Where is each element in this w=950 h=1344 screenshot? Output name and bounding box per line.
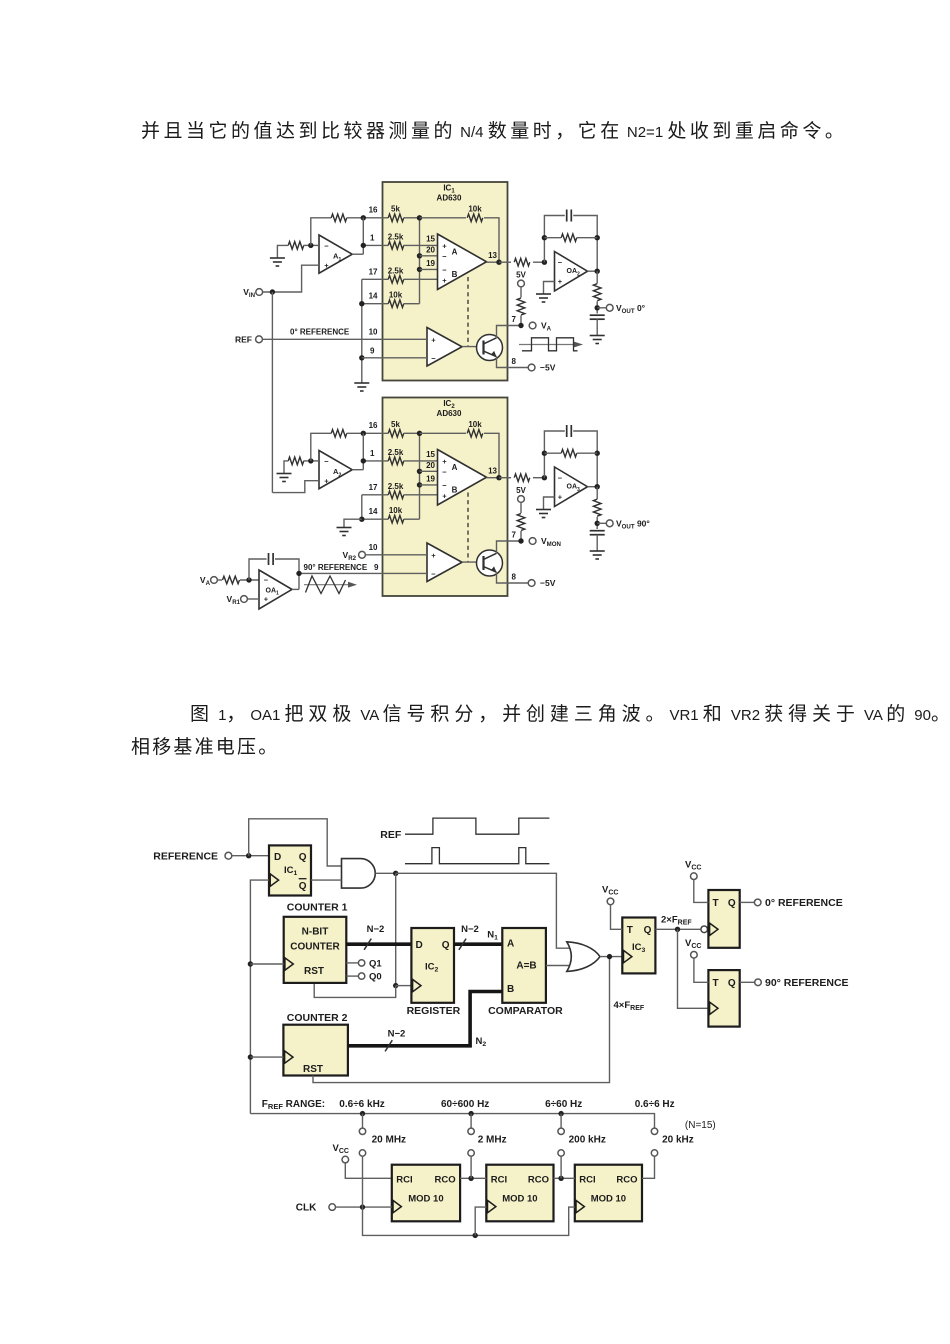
label A2 bbox=[333, 467, 341, 478]
svg-text:+: + bbox=[558, 277, 563, 286]
terminal CLK bbox=[329, 1204, 336, 1211]
wire collector to pin7 bbox=[497, 541, 522, 553]
svg-text:B: B bbox=[507, 984, 514, 995]
label AD630 bbox=[437, 409, 462, 418]
value 5k bbox=[391, 205, 400, 214]
svg-text:10k: 10k bbox=[389, 291, 403, 300]
svg-text:6÷60 Hz: 6÷60 Hz bbox=[545, 1099, 582, 1110]
wire 5k to node bbox=[404, 432, 420, 434]
wire amp out bbox=[487, 477, 500, 479]
junction CLK bbox=[360, 1204, 365, 1209]
capacitor output filter OA3 bbox=[590, 531, 605, 535]
svg-text:RCI: RCI bbox=[579, 1174, 595, 1185]
bus width slash bbox=[385, 1040, 392, 1051]
label COUNTER bbox=[290, 942, 340, 953]
wire Q0 bbox=[346, 975, 358, 977]
resistor 10k feedback IC1 bbox=[467, 214, 483, 222]
A1 minus bbox=[324, 241, 329, 250]
wire 10k to pin13 bbox=[484, 218, 499, 262]
clock input MOD10 3 bbox=[576, 1200, 584, 1212]
svg-text:+: + bbox=[442, 242, 447, 251]
label 200 kHz bbox=[569, 1135, 606, 1146]
square wave symbol VA bbox=[519, 338, 583, 351]
svg-text:COUNTER 1: COUNTER 1 bbox=[287, 902, 348, 914]
svg-text:2.5k: 2.5k bbox=[388, 482, 404, 491]
wire AND output to register clock bbox=[395, 873, 397, 985]
terminal 90deg REFERENCE bbox=[755, 979, 762, 986]
wire VIN to A2 plus bbox=[272, 481, 319, 493]
junction node16 bbox=[417, 431, 422, 436]
wire VA to resistor bbox=[217, 579, 222, 581]
svg-text:REGISTER: REGISTER bbox=[407, 1005, 461, 1017]
junction pin20 bbox=[417, 469, 422, 474]
wire REFERENCE to D bbox=[232, 855, 269, 857]
AND pulse waveform bbox=[405, 848, 549, 864]
label A bbox=[452, 248, 458, 257]
label OA2 bbox=[567, 268, 581, 277]
OA1 minus bbox=[264, 576, 269, 585]
junction OA2 inverting bbox=[542, 260, 547, 265]
wire 2MHz tap bbox=[470, 1156, 472, 1178]
svg-text:15: 15 bbox=[426, 235, 435, 244]
terminal 5V bbox=[518, 280, 525, 287]
clock input register bbox=[413, 979, 421, 991]
clock input counter2 bbox=[285, 1051, 293, 1063]
wire resistor to OA1 bbox=[240, 579, 259, 581]
svg-text:+: + bbox=[442, 492, 447, 501]
label N1 bbox=[487, 930, 498, 942]
label RCI 2 bbox=[491, 1174, 507, 1185]
wire pin14 row IC1 bbox=[362, 303, 389, 305]
svg-text:5V: 5V bbox=[516, 271, 526, 280]
svg-text:+: + bbox=[264, 595, 269, 604]
junction OA2 output bbox=[595, 269, 600, 274]
junction pin13 bbox=[496, 475, 501, 480]
svg-text:CLK: CLK bbox=[296, 1203, 317, 1214]
wire 2xFref to 90deg FF clock bbox=[678, 929, 709, 1008]
wire pin14 row IC2 bbox=[362, 518, 389, 520]
junction pin20 bbox=[417, 253, 422, 258]
label REGISTER bbox=[407, 1005, 461, 1017]
label 2 MHz bbox=[478, 1135, 507, 1146]
svg-text:Q: Q bbox=[442, 940, 450, 951]
label VCC dividers bbox=[333, 1143, 349, 1155]
counter 1 N-BIT COUNTER bbox=[284, 917, 347, 983]
clock input 0deg FF bbox=[710, 923, 718, 935]
label IC1 bbox=[443, 184, 455, 195]
pin 8 IC2 bbox=[512, 573, 517, 582]
wire OA2 cap feedback left bbox=[544, 216, 564, 263]
label 5V bbox=[516, 486, 526, 495]
resistor 10k IC1 bbox=[388, 300, 404, 308]
wire pin20 to -A bbox=[420, 470, 438, 472]
svg-text:2.5k: 2.5k bbox=[388, 233, 404, 242]
resistor 2.5k-A IC2 bbox=[388, 457, 404, 465]
register IC2 bbox=[411, 928, 454, 1003]
wire 2.5k to +A bbox=[404, 244, 438, 246]
label IC1 ff bbox=[284, 865, 298, 877]
svg-text:−: − bbox=[324, 241, 329, 250]
OA2 minus bbox=[558, 258, 563, 267]
wire CLK to MOD10 3 bbox=[363, 1207, 575, 1235]
svg-text:−: − bbox=[442, 481, 447, 490]
label IC2 bbox=[443, 399, 455, 410]
op-amp A1 bbox=[319, 235, 352, 273]
label 90 deg reference bbox=[304, 563, 368, 572]
wire AND output bbox=[375, 872, 395, 874]
junction A2 inverting node bbox=[308, 458, 313, 463]
flip-flop 90 deg bbox=[708, 970, 739, 1027]
pin 19 bbox=[426, 475, 435, 484]
wire to ground A2 bbox=[284, 461, 288, 474]
junction pin1 node IC2 bbox=[361, 458, 366, 463]
ground VOUT 0 filter bbox=[590, 336, 605, 344]
wire pin13 out bbox=[499, 261, 511, 263]
resistor 2.5k-A IC1 bbox=[388, 242, 404, 250]
flip-flop IC1 bbox=[269, 845, 311, 895]
resistor 2.5k-B IC1 bbox=[388, 276, 404, 284]
svg-text:20 MHz: 20 MHz bbox=[372, 1135, 406, 1146]
svg-text:COMPARATOR: COMPARATOR bbox=[488, 1005, 563, 1017]
wire 10k to pin13 bbox=[484, 433, 499, 477]
svg-text:5k: 5k bbox=[391, 420, 400, 429]
transistor Q2 bbox=[477, 550, 503, 576]
ground OA2 bbox=[536, 294, 551, 302]
terminal VCC dividers bbox=[342, 1156, 349, 1163]
switch contact lower 2MHz bbox=[468, 1150, 474, 1156]
svg-text:RCI: RCI bbox=[491, 1174, 507, 1185]
wire RCO1 to RCI2 bbox=[460, 1177, 486, 1179]
wire IC3 Q out 2xFref bbox=[655, 928, 700, 930]
wire 200kHz tap bbox=[560, 1156, 562, 1178]
pin 1 bbox=[370, 234, 375, 243]
label N-BIT bbox=[302, 926, 329, 937]
value 2.5k bbox=[388, 448, 404, 457]
svg-text:N-BIT: N-BIT bbox=[302, 926, 329, 937]
junction OA3 output bbox=[595, 484, 600, 489]
wire VCC to RCI1 bbox=[345, 1163, 392, 1178]
terminal VR2 bbox=[359, 551, 366, 558]
wire VR1 to OA1 plus bbox=[247, 598, 259, 600]
wire 2.5k to +B bbox=[404, 494, 438, 496]
svg-text:A: A bbox=[507, 938, 514, 949]
wire CLK to MOD10 1 bbox=[336, 1206, 392, 1208]
svg-text:−: − bbox=[431, 354, 436, 363]
svg-text:B: B bbox=[452, 486, 458, 495]
svg-text:14: 14 bbox=[369, 292, 378, 301]
resistor output filter OA3 bbox=[593, 499, 601, 516]
svg-text:7: 7 bbox=[512, 531, 517, 540]
label A=B bbox=[516, 961, 536, 972]
wire node to 10k bbox=[420, 217, 467, 219]
label T IC3 bbox=[627, 925, 633, 936]
junction CLK MOD10 2 bbox=[473, 1233, 478, 1238]
svg-text:Q1: Q1 bbox=[369, 958, 382, 969]
label AD630 bbox=[437, 194, 462, 203]
label A bbox=[452, 463, 458, 472]
svg-text:60÷600 Hz: 60÷600 Hz bbox=[441, 1099, 489, 1110]
ground OA3 bbox=[536, 510, 551, 518]
junction A1 inverting node bbox=[308, 243, 313, 248]
OA3 plus bbox=[558, 493, 563, 502]
switch contact upper 2MHz bbox=[468, 1128, 474, 1134]
label Q register bbox=[442, 940, 450, 951]
wire pin17 row IC1 bbox=[362, 278, 389, 280]
junction OA1 inverting bbox=[246, 577, 251, 582]
wire 5V to resistor bbox=[520, 503, 522, 514]
flip-flop 0 deg bbox=[708, 890, 739, 948]
terminal -5V stage1 bbox=[528, 364, 535, 371]
svg-text:16: 16 bbox=[369, 206, 378, 215]
wire A1 output column bbox=[362, 218, 364, 254]
svg-text:1: 1 bbox=[370, 234, 375, 243]
resistor A1 feedback bbox=[331, 214, 347, 222]
junction pin13 bbox=[496, 260, 501, 265]
value 10k fb bbox=[468, 420, 482, 429]
svg-text:T: T bbox=[627, 925, 633, 936]
wire clock to counter1 bbox=[250, 963, 283, 965]
label IC2 register bbox=[425, 962, 439, 974]
junction VIN bbox=[270, 289, 275, 294]
label MOD 10 1 bbox=[408, 1194, 443, 1205]
wire fb resistor lead bbox=[544, 237, 561, 239]
label D IC1ff bbox=[274, 852, 281, 863]
wire to A2 inverting bbox=[304, 460, 319, 462]
bus N-2 counter1 to register bbox=[346, 942, 411, 946]
label IC3 bbox=[632, 942, 646, 954]
terminal Q1 bbox=[358, 960, 364, 966]
svg-text:0.6÷6 kHz: 0.6÷6 kHz bbox=[339, 1099, 385, 1110]
label VA bbox=[541, 321, 552, 333]
label N-2 register bbox=[461, 924, 479, 935]
wire OA2 plus to ground bbox=[544, 282, 555, 295]
wire node column bbox=[419, 433, 421, 519]
pin 14 bbox=[369, 507, 378, 516]
A2 plus bbox=[324, 476, 329, 485]
clock input 90deg FF bbox=[710, 1002, 718, 1014]
svg-text:−5V: −5V bbox=[540, 363, 556, 373]
label VMON bbox=[541, 536, 561, 548]
svg-text:MOD 10: MOD 10 bbox=[591, 1194, 626, 1205]
wire pin20 to -A bbox=[420, 255, 438, 257]
resistor 5k IC1 bbox=[388, 214, 404, 222]
divider MOD 10 #3 bbox=[575, 1165, 642, 1222]
divider MOD 10 #1 bbox=[392, 1165, 460, 1222]
label 20 kHz bbox=[662, 1135, 694, 1146]
wire 20MHz tap to CLK bbox=[362, 1156, 364, 1207]
label 0 deg reference bbox=[290, 327, 350, 336]
wire emitter to pin8 bbox=[497, 572, 529, 583]
svg-text:13: 13 bbox=[488, 251, 497, 260]
wire OA1 output bbox=[292, 588, 299, 590]
svg-text:RCO: RCO bbox=[528, 1174, 549, 1185]
wire Q1 bbox=[346, 962, 358, 964]
svg-text:RCO: RCO bbox=[616, 1174, 637, 1185]
svg-text:−: − bbox=[442, 468, 447, 477]
wire Qbar to AND input bbox=[311, 879, 342, 881]
minus B bbox=[442, 481, 447, 490]
resistor OA1 input bbox=[223, 576, 240, 584]
svg-text:2.5k: 2.5k bbox=[388, 448, 404, 457]
terminal VCC 0deg FF bbox=[691, 873, 698, 880]
label B comparator bbox=[507, 984, 514, 995]
label VCC IC3 bbox=[602, 884, 618, 896]
junction pin1 node bbox=[361, 243, 366, 248]
wire REF to pin10 bbox=[262, 338, 427, 340]
IC2 AD630 box bbox=[383, 398, 508, 597]
svg-text:+: + bbox=[324, 261, 329, 270]
ground VOUT 90 filter bbox=[590, 551, 605, 559]
wire 10k to node bbox=[404, 518, 420, 520]
clock input MOD10 2 bbox=[488, 1200, 496, 1212]
svg-text:RST: RST bbox=[304, 966, 324, 977]
terminal VCC 90deg FF bbox=[691, 952, 698, 959]
wire pin13 out bbox=[499, 477, 511, 479]
value 10k bbox=[389, 291, 403, 300]
label T 0deg FF bbox=[713, 898, 719, 909]
svg-text:2.5k: 2.5k bbox=[388, 267, 404, 276]
junction pin14 IC2 bbox=[359, 517, 364, 522]
wire to register clock bbox=[396, 985, 411, 987]
modulator amp A/B IC2 bbox=[438, 450, 487, 506]
plus B bbox=[442, 492, 447, 501]
resistor pullup 5V bbox=[517, 298, 525, 315]
terminal VOUT 0 bbox=[606, 304, 613, 311]
svg-text:20 kHz: 20 kHz bbox=[662, 1135, 694, 1146]
wire collector to pin7 bbox=[497, 326, 522, 338]
svg-text:(N=15): (N=15) bbox=[685, 1120, 716, 1131]
label COMPARATOR bbox=[488, 1005, 563, 1017]
pin 15 bbox=[426, 450, 435, 459]
svg-text:T: T bbox=[713, 978, 719, 989]
wire to VOUT node bbox=[596, 301, 598, 313]
pin 10 IC2 bbox=[369, 543, 378, 552]
label N2 bbox=[476, 1036, 487, 1048]
modulator amp A/B IC1 bbox=[438, 234, 487, 290]
svg-text:Q: Q bbox=[728, 898, 736, 909]
wire 2.5k to +B bbox=[404, 278, 438, 280]
divider MOD 10 #2 bbox=[486, 1165, 553, 1222]
label VR2 bbox=[343, 550, 357, 562]
wire VCC to T 90deg FF bbox=[694, 958, 709, 982]
label D register bbox=[416, 940, 423, 951]
svg-text:90° REFERENCE: 90° REFERENCE bbox=[304, 563, 368, 572]
svg-text:Q: Q bbox=[728, 978, 736, 989]
terminal VOUT 90 bbox=[606, 520, 613, 527]
junction fb resistor right OA3 bbox=[595, 451, 600, 456]
svg-text:−: − bbox=[558, 258, 563, 267]
switch contact upper 20MHz bbox=[359, 1128, 365, 1134]
pin 17 bbox=[369, 483, 378, 492]
triangle wave symbol bbox=[304, 576, 357, 594]
label A1 bbox=[333, 252, 341, 263]
pin 9 IC2 bbox=[374, 563, 379, 572]
label RCO 2 bbox=[528, 1174, 549, 1185]
svg-text:REF: REF bbox=[235, 334, 252, 344]
svg-text:1: 1 bbox=[370, 449, 375, 458]
label VOUT 0deg bbox=[616, 303, 646, 315]
label Q1 bbox=[369, 958, 382, 969]
pin 17 bbox=[369, 268, 378, 277]
label 4xFref bbox=[614, 1000, 645, 1012]
resistor OA2 feedback bbox=[561, 234, 577, 242]
pin 20 bbox=[426, 461, 435, 470]
svg-text:+: + bbox=[558, 493, 563, 502]
switch contact upper 200kHz bbox=[558, 1128, 564, 1134]
svg-text:N−2: N−2 bbox=[461, 924, 479, 935]
pin 13 bbox=[488, 467, 497, 476]
pin 16 bbox=[369, 206, 378, 215]
dashed internal connection bbox=[467, 493, 469, 563]
comp plus bbox=[431, 336, 436, 345]
svg-text:RCO: RCO bbox=[434, 1174, 455, 1185]
wire REFERENCE to AND input bbox=[249, 819, 342, 866]
wire tap2 down bbox=[470, 1114, 472, 1128]
junction pin9 bbox=[359, 355, 364, 360]
wire CLK to MOD10 2 bbox=[475, 1207, 486, 1235]
terminal VR1 bbox=[241, 596, 248, 603]
resistor A2 input bbox=[288, 457, 304, 465]
label RCO 1 bbox=[434, 1174, 455, 1185]
REF square waveform bbox=[405, 818, 549, 834]
wire OA3 output bbox=[588, 486, 598, 488]
wire OA1 cap feedback left bbox=[249, 559, 267, 580]
junction pin14 bbox=[359, 301, 364, 306]
wire output down OA3 bbox=[596, 487, 598, 499]
label RST counter2 bbox=[303, 1064, 323, 1075]
svg-text:A=B: A=B bbox=[516, 961, 536, 972]
wire 10k to node bbox=[404, 303, 420, 305]
wire fb resistor lead OA3 bbox=[544, 452, 561, 454]
value 2.5k B bbox=[388, 267, 404, 276]
svg-text:90° REFERENCE: 90° REFERENCE bbox=[765, 977, 849, 989]
label Qbar IC1ff bbox=[299, 879, 307, 892]
label -5V stage2 bbox=[540, 578, 556, 588]
svg-text:+: + bbox=[442, 457, 447, 466]
label 90deg REFERENCE bbox=[765, 977, 849, 989]
svg-text:N−2: N−2 bbox=[388, 1029, 406, 1040]
wire emitter to pin8 bbox=[497, 357, 529, 368]
junction OA3 inverting bbox=[542, 475, 547, 480]
value 2.5k B bbox=[388, 482, 404, 491]
capacitor OA2 feedback bbox=[567, 210, 572, 222]
svg-text:200 kHz: 200 kHz bbox=[569, 1135, 606, 1146]
bus N-2 counter2 to comparator B bbox=[348, 992, 502, 1046]
label Q 90deg FF bbox=[728, 978, 736, 989]
wire pin1 row IC1 bbox=[363, 244, 388, 246]
svg-text:A: A bbox=[452, 248, 458, 257]
svg-text:15: 15 bbox=[426, 450, 435, 459]
wire counter2 reset loop bbox=[313, 957, 610, 1083]
wire to VOUT terminal bbox=[597, 307, 606, 309]
label OA3 bbox=[567, 484, 581, 493]
svg-text:13: 13 bbox=[488, 467, 497, 476]
switch contact lower 200kHz bbox=[558, 1150, 564, 1156]
wire 5V to resistor bbox=[520, 287, 522, 298]
terminal 0deg REFERENCE bbox=[754, 899, 761, 906]
wire 17-14 column IC2 bbox=[361, 495, 363, 519]
minus B bbox=[442, 266, 447, 275]
svg-text:Q: Q bbox=[644, 925, 652, 936]
label OA1 bbox=[266, 588, 280, 597]
label VCC 90deg FF bbox=[685, 938, 701, 950]
svg-text:17: 17 bbox=[369, 483, 378, 492]
svg-text:+: + bbox=[431, 336, 436, 345]
label N-2 counter2 bbox=[388, 1029, 406, 1040]
resistor OA3 input bbox=[514, 474, 530, 482]
wire 90deg reference to pin9 IC2 bbox=[299, 572, 427, 574]
pin 9 IC1 bbox=[370, 346, 375, 355]
